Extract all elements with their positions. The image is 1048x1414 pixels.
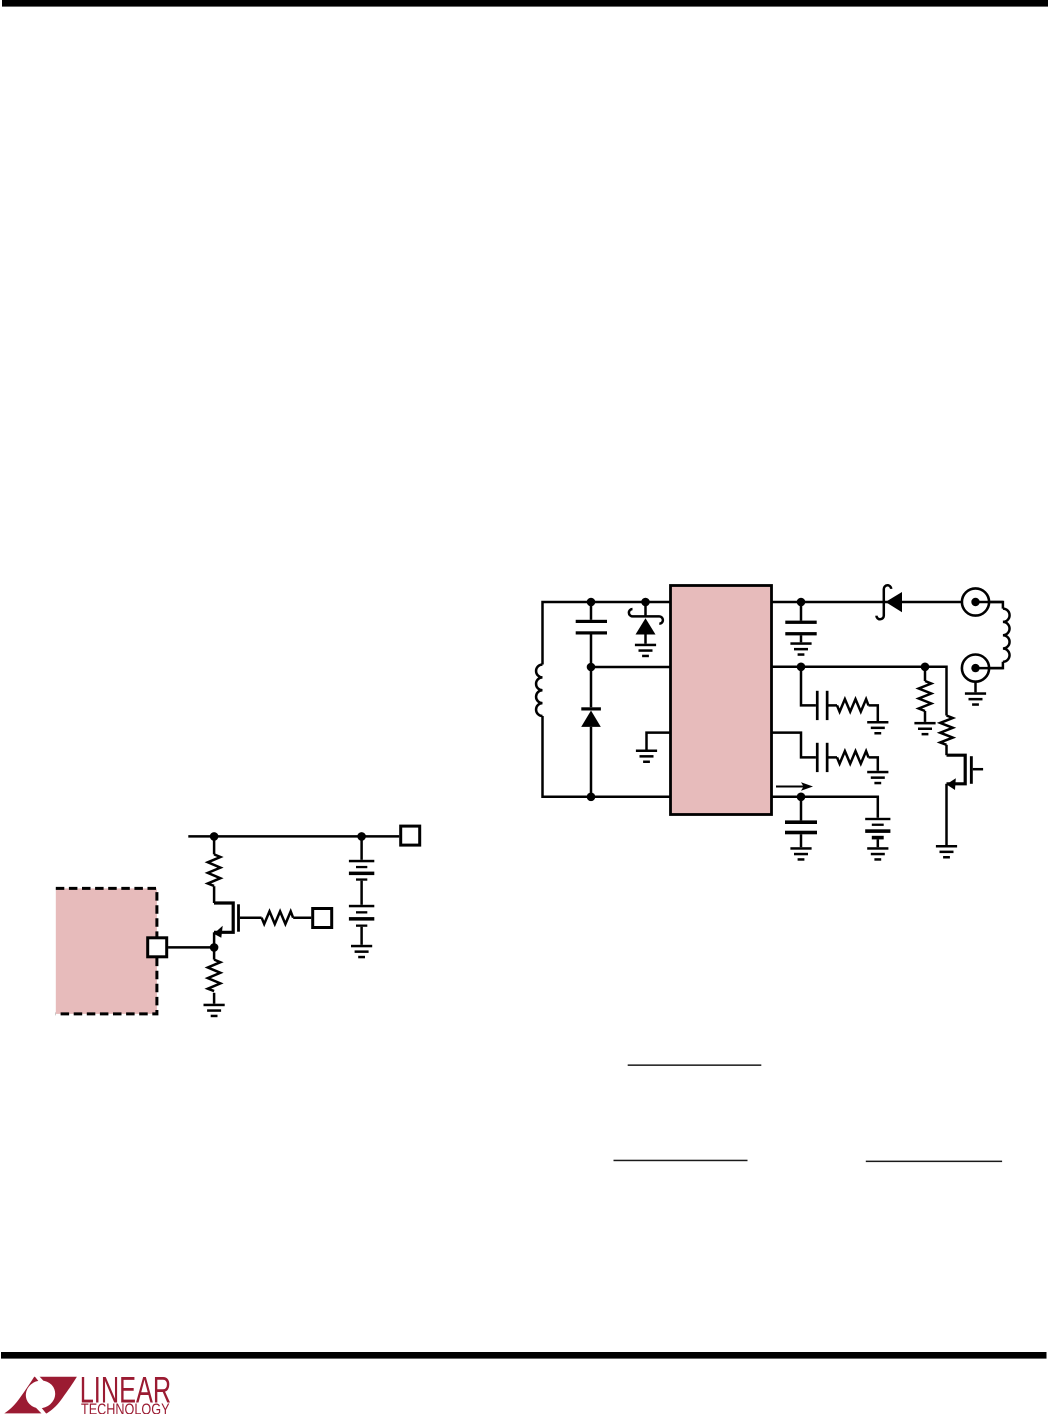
- svg-text:TECHNOLOGY: TECHNOLOGY: [81, 1401, 170, 1414]
